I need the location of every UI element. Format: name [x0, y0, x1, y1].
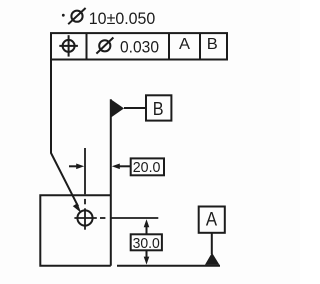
leader arrowhead: [73, 203, 81, 213]
datum B triangle: [111, 99, 124, 117]
datum A triangle: [205, 253, 220, 265]
30.0 dimension lower arrow: [146, 250, 148, 258]
20.0 dimension left arrow: [69, 165, 77, 167]
svg-text:0.030: 0.030: [120, 39, 159, 57]
feature control frame: [51, 33, 227, 59]
part outline: [40, 195, 111, 265]
svg-text:B: B: [153, 98, 164, 119]
leader dot: [62, 14, 65, 17]
datum A surface extension line: [117, 265, 220, 267]
hole circle: [77, 210, 92, 225]
hole vertical centerline: [84, 148, 86, 230]
svg-text:A: A: [206, 209, 217, 230]
datum A box: [199, 207, 225, 233]
diameter symbol (tolerance cell): [96, 38, 113, 54]
svg-text:B: B: [207, 36, 218, 53]
30.0 dimension box: [131, 234, 162, 250]
svg-text:20.0: 20.0: [133, 159, 161, 176]
svg-text:30.0: 30.0: [133, 235, 160, 252]
leader from frame to hole: [51, 60, 78, 207]
hole horizontal centerline: [74, 217, 158, 219]
datum B leader: [124, 107, 146, 109]
20.0 dimension box: [131, 158, 164, 175]
datum B box: [146, 95, 171, 120]
datum B extension line (part right edge extended): [110, 99, 112, 265]
svg-text:10±0.050: 10±0.050: [89, 9, 156, 28]
position symbol: [59, 35, 78, 56]
datum A stem: [211, 233, 213, 254]
30.0 dimension upper arrow: [146, 224, 148, 234]
svg-text:A: A: [179, 36, 190, 53]
20.0 dimension right arrow: [119, 165, 131, 167]
diameter symbol (size dimension): [68, 8, 85, 24]
